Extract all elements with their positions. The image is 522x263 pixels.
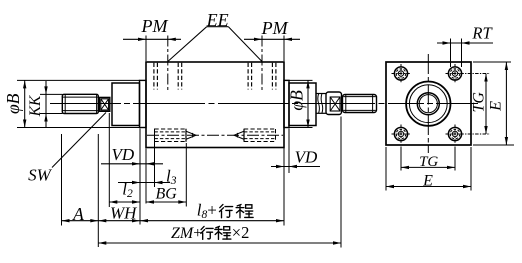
- svg-text:KK: KK: [27, 95, 44, 117]
- svg-text:BG: BG: [156, 186, 178, 203]
- svg-text:PM: PM: [261, 18, 289, 38]
- svg-text:E: E: [422, 172, 433, 189]
- svg-text:TG: TG: [419, 154, 438, 170]
- svg-text:RT: RT: [471, 23, 493, 42]
- svg-text:φB: φB: [287, 90, 307, 111]
- svg-text:TG: TG: [471, 92, 488, 113]
- svg-text:SW: SW: [28, 166, 53, 185]
- svg-text:VD: VD: [111, 145, 134, 164]
- svg-text:EE: EE: [206, 10, 229, 30]
- svg-text:E: E: [488, 101, 505, 112]
- svg-text:ZM+: ZM+: [171, 225, 202, 242]
- svg-text:PM: PM: [141, 16, 169, 36]
- svg-text:A: A: [72, 204, 84, 224]
- svg-text:φB: φB: [3, 93, 23, 114]
- svg-text:×2: ×2: [232, 223, 250, 242]
- svg-text:VD: VD: [295, 148, 318, 167]
- svg-text:WH: WH: [110, 203, 138, 222]
- svg-text:l8+: l8+: [197, 201, 217, 222]
